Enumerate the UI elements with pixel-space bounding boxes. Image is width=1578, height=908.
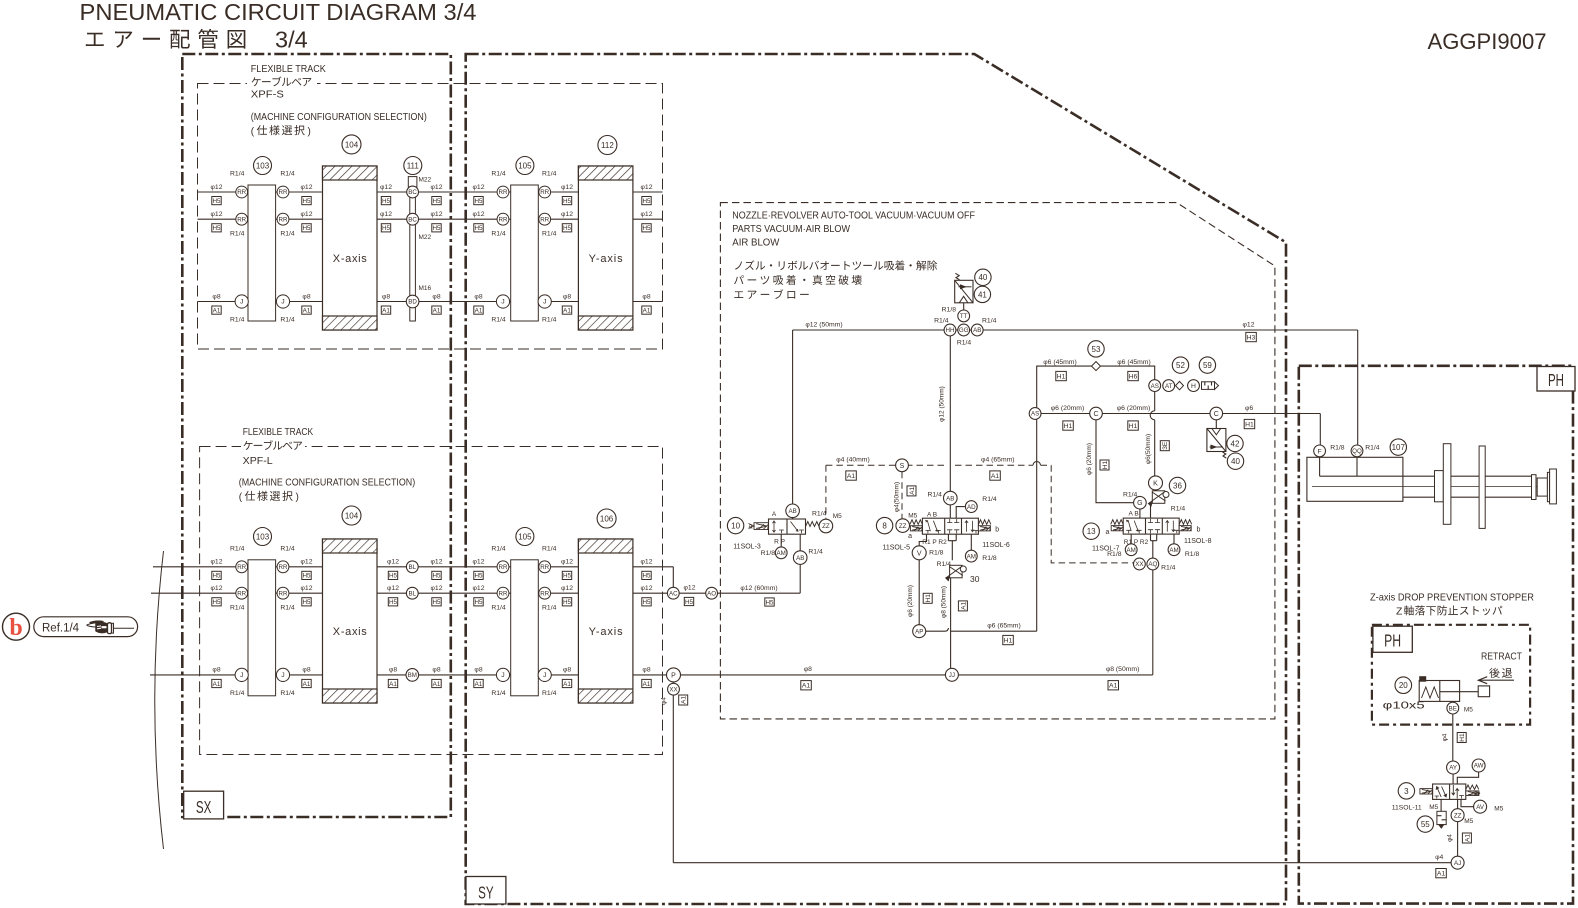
balloon 105 upper xyxy=(516,157,534,175)
nozzle section captions xyxy=(732,210,975,248)
svg-text:a: a xyxy=(749,524,753,531)
svg-text:A1: A1 xyxy=(991,473,1000,480)
svg-text:P: P xyxy=(671,672,676,679)
wire lower row 2 phi12 and phi12 60mm xyxy=(151,592,800,594)
PH label top xyxy=(1537,367,1575,392)
valve 11SOL-11 assembly xyxy=(1420,784,1480,799)
svg-text:A1: A1 xyxy=(563,307,571,314)
svg-text:PH: PH xyxy=(1384,631,1401,651)
svg-text:59: 59 xyxy=(1203,361,1212,370)
svg-text:φ4(50mm): φ4(50mm) xyxy=(894,482,901,512)
svg-text:RR: RR xyxy=(540,564,549,571)
node G xyxy=(1134,496,1147,509)
svg-text:R1/4: R1/4 xyxy=(542,690,557,697)
svg-text:R1/8: R1/8 xyxy=(982,555,997,562)
svg-text:10: 10 xyxy=(731,522,740,531)
svg-text:R1/4: R1/4 xyxy=(937,561,952,568)
svg-text:φ8: φ8 xyxy=(432,293,440,300)
svg-text:103: 103 xyxy=(256,532,270,541)
svg-text:H5: H5 xyxy=(642,225,651,232)
svg-text:G: G xyxy=(1137,500,1142,507)
svg-text:A1: A1 xyxy=(960,602,967,610)
pipe label upper r2 c1 xyxy=(301,211,313,232)
svg-text:AB: AB xyxy=(946,495,954,502)
node BE xyxy=(1447,702,1459,714)
svg-text:R1/4: R1/4 xyxy=(1365,445,1380,452)
svg-text:H5: H5 xyxy=(642,573,651,580)
svg-text:R1/4: R1/4 xyxy=(982,496,997,503)
svg-text:Z: Z xyxy=(1396,606,1403,618)
svg-text:M22: M22 xyxy=(419,234,432,241)
wire throttle30 down to JJ xyxy=(950,578,952,669)
svg-text:φ12: φ12 xyxy=(561,559,573,566)
svg-text:36: 36 xyxy=(1173,481,1182,490)
svg-text:φ8: φ8 xyxy=(804,666,812,673)
svg-text:φ12: φ12 xyxy=(211,585,223,592)
svg-text:φ4: φ4 xyxy=(661,697,668,705)
svg-text:H5: H5 xyxy=(389,599,398,606)
balloon 103 lower xyxy=(254,528,272,546)
svg-text:H5: H5 xyxy=(212,225,221,232)
svg-text:J: J xyxy=(281,299,284,306)
balloon 41 xyxy=(974,286,990,302)
svg-text:111: 111 xyxy=(407,161,420,170)
svg-text:R1/4: R1/4 xyxy=(230,231,245,238)
balloon 112 xyxy=(598,136,617,155)
svg-text:H5: H5 xyxy=(642,198,651,205)
node AW xyxy=(1472,759,1485,772)
valve 11SOL-5 11SOL-6 assembly xyxy=(919,505,971,560)
svg-text:φ8: φ8 xyxy=(474,293,482,300)
PH label inner xyxy=(1373,626,1412,652)
throttle valve 36 xyxy=(1149,491,1170,506)
svg-text:φ12: φ12 xyxy=(641,585,653,592)
svg-text:A1: A1 xyxy=(213,307,221,314)
pipe label upper r1 c1 xyxy=(301,184,313,205)
svg-text:R1/4: R1/4 xyxy=(491,605,506,612)
pipe label upper r3 c1 xyxy=(302,293,311,314)
wire C1 down to G xyxy=(1096,420,1134,503)
svg-text:H5: H5 xyxy=(382,225,391,232)
svg-text:(MACHINE CONFIGURATION SELECTI: (MACHINE CONFIGURATION SELECTION) xyxy=(239,478,415,489)
svg-text:R1/4: R1/4 xyxy=(280,690,295,697)
svg-text:AB: AB xyxy=(796,555,804,562)
svg-text:R1/8: R1/8 xyxy=(1185,551,1200,558)
svg-text:RR: RR xyxy=(237,189,246,196)
svg-text:A1: A1 xyxy=(1464,834,1471,842)
manifold bar 111 xyxy=(408,177,417,321)
svg-text:112: 112 xyxy=(601,141,614,150)
node QQ xyxy=(1351,445,1363,457)
node AQ xyxy=(1147,558,1159,570)
svg-text:φ8: φ8 xyxy=(389,667,397,674)
node AJ xyxy=(1451,856,1464,869)
svg-text:φ8 (50mm): φ8 (50mm) xyxy=(1106,666,1140,673)
svg-text:11SOL-3: 11SOL-3 xyxy=(733,544,761,551)
svg-text:RR: RR xyxy=(540,590,549,597)
svg-text:RR: RR xyxy=(237,216,246,223)
svg-text:AJ: AJ xyxy=(1454,860,1461,867)
balloon 59 xyxy=(1199,357,1215,373)
node AB valve1 low xyxy=(793,551,807,565)
svg-text:φ12: φ12 xyxy=(561,211,573,218)
svg-text:φ6 (20mm): φ6 (20mm) xyxy=(1051,405,1085,412)
svg-text:F: F xyxy=(1318,448,1322,455)
svg-text:H1: H1 xyxy=(1245,421,1254,428)
pipe label lower r1 c4 xyxy=(473,559,485,580)
svg-text:J: J xyxy=(240,299,243,306)
svg-text:11SOL-5: 11SOL-5 xyxy=(883,545,911,552)
svg-text:RETRACT: RETRACT xyxy=(1481,652,1522,663)
pipe label lower r3 c2 xyxy=(388,667,397,688)
svg-text:R1/8: R1/8 xyxy=(942,307,957,314)
svg-text:AY: AY xyxy=(1449,765,1457,772)
svg-text:R1/4: R1/4 xyxy=(230,317,245,324)
svg-text:RR: RR xyxy=(540,216,549,223)
svg-text:φ12: φ12 xyxy=(387,585,399,592)
label 後退 xyxy=(1489,668,1499,678)
flexible track box upper xyxy=(198,84,663,350)
balloon 20 xyxy=(1395,677,1412,694)
svg-text:H5: H5 xyxy=(474,573,483,580)
flexible track lower captions xyxy=(239,427,415,503)
svg-text:FLEXIBLE TRACK: FLEXIBLE TRACK xyxy=(243,427,314,438)
svg-text:H5: H5 xyxy=(563,198,572,205)
pipe label upper r2 c5 xyxy=(561,211,573,232)
reference marker b xyxy=(3,613,30,641)
svg-text:R1/4: R1/4 xyxy=(542,545,557,552)
Y-axis block lower xyxy=(578,539,633,703)
node AB valve2 xyxy=(944,491,958,505)
balloon 55 xyxy=(1417,816,1433,832)
svg-text:H5: H5 xyxy=(302,225,311,232)
wire phi6 45mm branch xyxy=(1037,366,1155,413)
svg-text:Y-axis: Y-axis xyxy=(589,626,624,638)
balloon 3 xyxy=(1398,783,1414,799)
svg-text:M5: M5 xyxy=(1464,707,1473,714)
svg-text:A1: A1 xyxy=(847,473,856,480)
svg-text:AGGPI9007: AGGPI9007 xyxy=(1428,29,1547,54)
wire upper row 1 phi12 xyxy=(198,191,663,193)
pipe label lower r3 c3 xyxy=(432,667,441,688)
pipe label upper r1 c5 xyxy=(561,184,573,205)
svg-text:JJ: JJ xyxy=(949,672,955,679)
node ZZ valve2 xyxy=(896,519,910,533)
svg-text:BM: BM xyxy=(408,672,417,679)
svg-text:φ10x5: φ10x5 xyxy=(1383,701,1425,712)
svg-text:XPF-S: XPF-S xyxy=(251,90,284,101)
svg-text:φ12: φ12 xyxy=(473,211,485,218)
wire AS down to phi6 65mm xyxy=(1036,420,1038,632)
node AO xyxy=(706,587,718,599)
svg-text:C: C xyxy=(1214,411,1219,418)
svg-text:H5: H5 xyxy=(765,599,774,606)
balloon 105 lower xyxy=(516,528,534,546)
throttle valve 30 xyxy=(946,565,967,580)
svg-text:R1/4: R1/4 xyxy=(280,605,295,612)
regulator unit 40 41 xyxy=(955,273,973,310)
pipe label lower r3 c0 xyxy=(212,667,221,688)
svg-text:H5: H5 xyxy=(389,573,398,580)
svg-text:R1 P R2: R1 P R2 xyxy=(922,539,947,546)
svg-text:R1/4: R1/4 xyxy=(1161,565,1176,572)
svg-text:8: 8 xyxy=(882,522,887,531)
svg-text:BL: BL xyxy=(409,564,417,571)
svg-text:RR: RR xyxy=(540,189,549,196)
port BL row2 xyxy=(406,587,418,599)
SX label xyxy=(184,791,224,819)
svg-text:AP: AP xyxy=(915,628,923,635)
pipe label lower r2 c3 xyxy=(431,585,443,606)
svg-text:R1/4: R1/4 xyxy=(230,171,245,178)
svg-text:R1/4: R1/4 xyxy=(982,318,997,325)
silencer branch AS AT H xyxy=(1149,380,1219,392)
flexible track box lower xyxy=(200,447,663,755)
svg-text:PNEUMATIC CIRCUIT DIAGRAM 3/4: PNEUMATIC CIRCUIT DIAGRAM 3/4 xyxy=(80,0,477,25)
svg-text:J: J xyxy=(501,672,504,679)
svg-text:40: 40 xyxy=(978,273,987,282)
svg-text:52: 52 xyxy=(1176,361,1185,370)
svg-text:R1/4: R1/4 xyxy=(230,545,245,552)
svg-text:φ6 (45mm): φ6 (45mm) xyxy=(1043,359,1077,366)
svg-text:φ12: φ12 xyxy=(431,585,443,592)
svg-text:φ8: φ8 xyxy=(302,293,310,300)
stopper box xyxy=(1372,625,1530,725)
svg-text:RR: RR xyxy=(279,590,288,597)
svg-text:40: 40 xyxy=(1231,457,1240,466)
svg-text:AV: AV xyxy=(1476,804,1485,811)
node ZZ valve1 xyxy=(819,519,833,533)
node HH xyxy=(944,324,956,336)
node AD xyxy=(965,501,977,513)
svg-text:φ6 (20mm): φ6 (20mm) xyxy=(907,585,914,617)
svg-text:A1: A1 xyxy=(1109,683,1118,690)
svg-text:R1/8: R1/8 xyxy=(1330,445,1345,452)
svg-text:R1/4: R1/4 xyxy=(957,340,972,347)
svg-text:M5: M5 xyxy=(1429,804,1438,811)
svg-text:11SOL-8: 11SOL-8 xyxy=(1184,538,1212,545)
svg-text:BC: BC xyxy=(408,216,417,223)
svg-text:H1: H1 xyxy=(1459,733,1466,742)
svg-text:H5: H5 xyxy=(212,599,221,606)
svg-text:A1: A1 xyxy=(909,487,916,495)
svg-text:A1: A1 xyxy=(303,307,311,314)
svg-text:HH: HH xyxy=(946,327,955,334)
wire right drop to QQ xyxy=(1357,330,1359,445)
svg-text:105: 105 xyxy=(518,532,532,541)
svg-text:φ12: φ12 xyxy=(301,211,313,218)
svg-text:RR: RR xyxy=(499,189,508,196)
svg-text:A1: A1 xyxy=(681,696,688,704)
pipe label upper r3 c6 xyxy=(642,293,651,314)
svg-text:104: 104 xyxy=(345,140,359,149)
svg-text:R1/8: R1/8 xyxy=(929,550,944,557)
svg-text:H5: H5 xyxy=(302,599,311,606)
svg-text:φ12 (60mm): φ12 (60mm) xyxy=(740,585,777,592)
balloon 53 xyxy=(1088,341,1104,357)
svg-text:Y-axis: Y-axis xyxy=(589,253,624,265)
balloon 36 xyxy=(1169,477,1185,493)
svg-text:ZZ: ZZ xyxy=(822,523,830,530)
svg-text:φ12: φ12 xyxy=(431,184,443,191)
port BD row3 xyxy=(406,295,419,308)
svg-text:3: 3 xyxy=(1404,787,1409,796)
svg-text:M16: M16 xyxy=(419,285,432,292)
svg-text:φ12: φ12 xyxy=(641,559,653,566)
svg-text:107: 107 xyxy=(1392,443,1406,452)
svg-text:AD: AD xyxy=(967,504,976,511)
svg-text:φ8: φ8 xyxy=(212,293,220,300)
pipe label upper r2 c4 xyxy=(473,211,485,232)
node S xyxy=(896,459,909,472)
node F xyxy=(1314,445,1326,457)
svg-text:φ12: φ12 xyxy=(380,184,392,191)
svg-text:H1: H1 xyxy=(925,594,932,603)
svg-text:H5: H5 xyxy=(432,198,441,205)
svg-text:φ8: φ8 xyxy=(432,667,440,674)
port BC row1 xyxy=(407,186,419,198)
svg-text:11SOL-11: 11SOL-11 xyxy=(1392,805,1422,812)
svg-text:J: J xyxy=(501,299,504,306)
svg-text:φ6 (20mm): φ6 (20mm) xyxy=(1117,405,1151,412)
node AB valve1 top xyxy=(786,504,800,518)
balloon 8 xyxy=(876,517,892,533)
valve 11SOL-7 11SOL-8 assembly xyxy=(1131,490,1174,675)
svg-text:S: S xyxy=(900,463,905,470)
node TT xyxy=(958,310,970,322)
svg-text:φ4: φ4 xyxy=(1446,834,1453,842)
pipe label lower r3 c5 xyxy=(562,667,571,688)
node AM valve3 right xyxy=(1168,544,1180,556)
svg-text:R1/4: R1/4 xyxy=(280,231,295,238)
svg-text:R1/4: R1/4 xyxy=(280,545,295,552)
svg-text:H5: H5 xyxy=(432,573,441,580)
wire phi6 65mm xyxy=(926,628,1037,631)
node XX lower xyxy=(668,683,680,695)
svg-text:H6: H6 xyxy=(1129,373,1138,380)
svg-text:φ6 (65mm): φ6 (65mm) xyxy=(987,622,1021,629)
pipe label lower r1 c3 xyxy=(431,559,443,580)
svg-text:R1/4: R1/4 xyxy=(491,317,506,324)
svg-text:R1/8: R1/8 xyxy=(1107,551,1122,558)
svg-text:M22: M22 xyxy=(419,177,432,184)
svg-text:3E: 3E xyxy=(1162,441,1169,450)
svg-text:R1/4: R1/4 xyxy=(808,549,823,556)
svg-text:H5: H5 xyxy=(302,573,311,580)
port BC row2 xyxy=(407,213,419,225)
svg-text:φ12: φ12 xyxy=(641,211,653,218)
pipe label lower r3 c1 xyxy=(302,667,311,688)
svg-text:AM: AM xyxy=(1169,547,1178,554)
svg-text:A1: A1 xyxy=(1437,871,1446,878)
node C 1 xyxy=(1090,407,1103,420)
node AM valve1 xyxy=(775,547,787,559)
nozzle section japanese captions xyxy=(734,260,937,299)
svg-text:RR: RR xyxy=(279,189,288,196)
svg-text:X-axis: X-axis xyxy=(333,253,368,265)
balloon 103 upper xyxy=(254,157,272,175)
svg-text:φ4 (40mm): φ4 (40mm) xyxy=(836,457,870,464)
pipe label upper r1 c4 xyxy=(473,184,485,205)
svg-text:A B: A B xyxy=(1129,511,1139,518)
svg-text:φ8: φ8 xyxy=(642,667,650,674)
svg-text:φ12: φ12 xyxy=(641,184,653,191)
pipe label lower r1 c6 xyxy=(641,559,653,580)
svg-text:H5: H5 xyxy=(474,599,483,606)
svg-text:42: 42 xyxy=(1231,439,1240,448)
node V xyxy=(912,546,926,560)
svg-text:30: 30 xyxy=(970,574,980,584)
wire HH down to valve2 AB xyxy=(949,336,951,491)
port BM row3 xyxy=(406,669,419,682)
pipe label lower r3 c4 xyxy=(474,667,483,688)
svg-text:φ12: φ12 xyxy=(561,585,573,592)
svg-text:H1: H1 xyxy=(1057,373,1066,380)
svg-text:φ12 (50mm): φ12 (50mm) xyxy=(939,386,946,422)
svg-text:R1/4: R1/4 xyxy=(928,492,943,499)
svg-text:R1/4: R1/4 xyxy=(542,231,557,238)
svg-text:R1/4: R1/4 xyxy=(280,317,295,324)
wire upper row 2 phi12 xyxy=(198,218,663,220)
svg-text:φ8: φ8 xyxy=(382,293,390,300)
svg-text:A1: A1 xyxy=(213,681,221,688)
svg-text:A1: A1 xyxy=(433,307,441,314)
svg-text:R1/4: R1/4 xyxy=(230,690,245,697)
svg-text:FLEXIBLE TRACK: FLEXIBLE TRACK xyxy=(251,64,326,75)
pipe label lower r1 c2 xyxy=(387,559,399,580)
node AM valve2 xyxy=(965,550,977,562)
valve 11SOL-7 body xyxy=(1111,518,1192,534)
wire drop to F xyxy=(1319,414,1321,446)
node JJ xyxy=(945,668,958,681)
svg-text:103: 103 xyxy=(256,161,270,170)
pipe label lower r2 c1 xyxy=(301,585,313,606)
pipe label lower r2 c0 xyxy=(211,585,223,606)
svg-text:AM: AM xyxy=(777,550,786,557)
svg-text:J: J xyxy=(543,672,546,679)
pipe label upper r2 c6 xyxy=(641,211,653,232)
svg-text:φ12: φ12 xyxy=(431,559,443,566)
pipe label lower r2 c4 xyxy=(473,585,485,606)
svg-text:φ4 (65mm): φ4 (65mm) xyxy=(981,457,1015,464)
svg-text:φ12: φ12 xyxy=(684,585,696,592)
svg-text:R1/4: R1/4 xyxy=(542,317,557,324)
pipe label lower r3 c6 xyxy=(642,667,651,688)
svg-text:A1: A1 xyxy=(802,683,811,690)
svg-text:104: 104 xyxy=(345,511,359,520)
svg-text:J: J xyxy=(543,299,546,306)
svg-text:55: 55 xyxy=(1421,820,1430,829)
valve 11SOL-3 assembly xyxy=(749,518,801,594)
svg-text:φ12: φ12 xyxy=(301,559,313,566)
SY region border xyxy=(466,54,1286,904)
svg-text:XPF-L: XPF-L xyxy=(243,456,273,467)
muffler under valve4 xyxy=(1437,799,1446,828)
svg-text:M5: M5 xyxy=(1494,806,1503,813)
balloon 107 xyxy=(1390,439,1406,455)
SX region border xyxy=(182,54,451,817)
svg-text:H5: H5 xyxy=(474,198,483,205)
svg-text:H5: H5 xyxy=(302,198,311,205)
svg-text:105: 105 xyxy=(518,161,532,170)
cable track 105 upper xyxy=(491,171,556,324)
svg-text:H5: H5 xyxy=(642,599,651,606)
svg-text:AM: AM xyxy=(967,553,976,560)
wire lower row 3 phi8 xyxy=(150,674,1153,676)
balloon 13 xyxy=(1083,523,1099,539)
svg-text:b: b xyxy=(995,527,999,534)
svg-text:b: b xyxy=(1197,527,1201,534)
